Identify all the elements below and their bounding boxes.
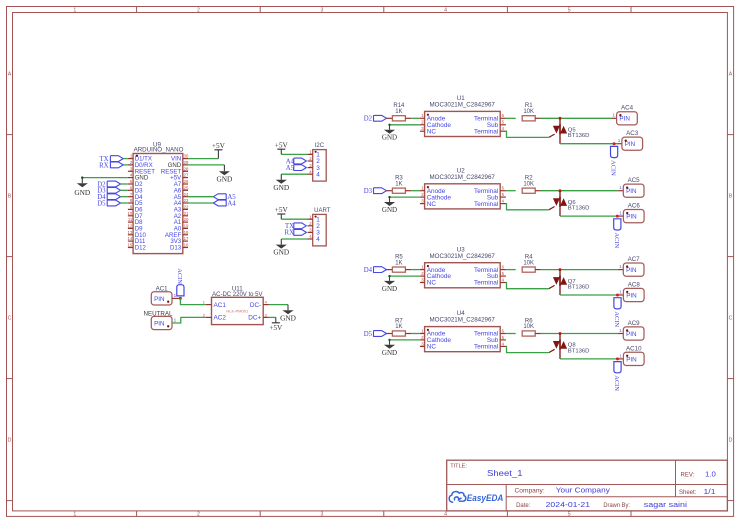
connector AC1 PIN [151, 285, 176, 305]
svg-text:MOC3021M_C2842967: MOC3021M_C2842967 [430, 102, 496, 109]
resistor R1 10K [522, 103, 535, 121]
triac Q6 BT136D [549, 191, 590, 216]
svg-text:D3: D3 [364, 188, 373, 195]
net flag TX at UART pin2 [285, 223, 306, 230]
svg-text:PIN: PIN [625, 141, 636, 148]
wire U1 cathode to GND [390, 124, 420, 126]
svg-text:HLK-PM001: HLK-PM001 [226, 308, 249, 313]
resistor R3 1K [392, 176, 405, 194]
svg-text:C: C [729, 315, 733, 321]
junction cathode GND [388, 124, 390, 126]
svg-text:ACIN: ACIN [176, 268, 183, 284]
svg-text:12: 12 [128, 224, 133, 229]
wire U2 cathode to GND [390, 196, 420, 198]
wire A4 to U9 [188, 202, 213, 204]
svg-text:5: 5 [568, 7, 571, 13]
junction on GND wire [81, 176, 84, 179]
junction ACIN AC8 [616, 294, 619, 297]
wire D5 to U9 [121, 202, 128, 204]
svg-text:D5: D5 [97, 200, 106, 207]
svg-text:ARDUINO_NANO: ARDUINO_NANO [134, 147, 184, 154]
svg-text:GND: GND [74, 188, 90, 197]
svg-text:D13: D13 [170, 245, 182, 252]
svg-text:PIN: PIN [154, 320, 165, 327]
wire D2 to R14 [387, 117, 393, 119]
wire TX to U9 pin1 [123, 158, 128, 160]
wire AC1 pin to ACIN junction [172, 297, 180, 299]
svg-text:GND: GND [273, 183, 289, 192]
svg-text:MOC3021M_C2842967: MOC3021M_C2842967 [430, 253, 496, 260]
svg-text:RX: RX [285, 230, 295, 237]
svg-text:REV:: REV: [681, 472, 695, 478]
svg-text:1.0: 1.0 [705, 469, 716, 478]
svg-text:4: 4 [316, 236, 320, 243]
svg-text:1K: 1K [395, 260, 402, 266]
junction cathode GND [388, 339, 390, 341]
connector I2C header [308, 143, 327, 181]
svg-text:C: C [8, 315, 12, 321]
svg-text:1K: 1K [395, 324, 402, 330]
wire U1 pin6 to R1 [506, 117, 516, 119]
wire ACIN junction to U11 AC1 [180, 298, 205, 304]
svg-text:NC: NC [427, 280, 437, 287]
svg-text:16: 16 [184, 243, 189, 248]
net port ACIN at AC6 [613, 219, 621, 249]
svg-text:BT136D: BT136D [568, 133, 590, 139]
svg-text:10K: 10K [523, 181, 534, 187]
ground symbol at U11 DC- [280, 305, 296, 323]
wire UART pin4 to GND [281, 238, 307, 240]
svg-text:2: 2 [197, 7, 200, 13]
wire R14 to U1 pin1 [405, 117, 420, 119]
svg-text:10: 10 [128, 211, 133, 216]
svg-text:20: 20 [184, 217, 189, 222]
svg-text:TITLE:: TITLE: [450, 464, 467, 470]
svg-text:ACIN: ACIN [613, 375, 620, 391]
svg-text:B: B [729, 193, 733, 199]
net flag D2 at U9 pin 5 [97, 181, 120, 188]
net port ACIN at AC10 [613, 362, 621, 392]
svg-text:Date:: Date: [516, 503, 531, 509]
wire U4 pin4 to Q8 gate [506, 346, 549, 352]
svg-text:18: 18 [184, 230, 189, 235]
svg-text:1: 1 [73, 512, 76, 518]
svg-text:1: 1 [174, 293, 177, 298]
svg-text:GND: GND [382, 349, 397, 357]
title block [447, 460, 728, 511]
svg-text:PIN: PIN [626, 267, 637, 274]
junction ACIN/AC1 [179, 297, 182, 300]
net flag D4 input [364, 267, 387, 274]
svg-text:PIN: PIN [619, 116, 630, 123]
svg-text:15: 15 [128, 243, 133, 248]
wire Q5 MT1 to AC3 [560, 143, 622, 145]
svg-text:GND: GND [382, 285, 397, 293]
svg-text:D: D [8, 437, 12, 443]
net flag A4 at U9 pin 23 [213, 200, 236, 207]
ground symbol at U9 pin29 [216, 165, 232, 183]
triac Q7 BT136D [549, 270, 590, 295]
svg-text:Terminal: Terminal [474, 201, 498, 208]
wire Q8 MT1 to AC10 [560, 358, 623, 360]
wire D4 to U9 [121, 196, 128, 198]
wire D2 to U9 [121, 183, 128, 185]
svg-text:10K: 10K [523, 109, 534, 115]
svg-text:GND: GND [382, 134, 397, 142]
svg-text:1K: 1K [395, 181, 402, 187]
svg-text:Terminal: Terminal [474, 128, 498, 135]
resistor R7 1K [392, 318, 405, 336]
connector NEUTRAL PIN [144, 311, 177, 330]
svg-text:1: 1 [619, 211, 622, 216]
svg-text:I2C: I2C [315, 143, 325, 149]
svg-text:AC8: AC8 [628, 281, 641, 288]
net port ACIN at AC1 [176, 268, 184, 296]
svg-text:PIN: PIN [626, 292, 637, 299]
ground symbol at U3 cathode [382, 276, 397, 293]
ground symbol at U9 pin4 [74, 178, 90, 197]
net port ACIN at AC3 [610, 146, 618, 176]
net flag D2 input [364, 115, 387, 122]
svg-text:22: 22 [184, 205, 189, 210]
ground symbol at U1 cathode [382, 125, 397, 142]
wire U2 pin4 to Q6 gate [506, 204, 549, 210]
svg-text:1: 1 [619, 353, 622, 358]
wire U11 DC- to GND [269, 304, 288, 306]
triac Q8 BT136D [549, 334, 590, 359]
svg-text:14: 14 [128, 236, 133, 241]
resistor R2 10K [522, 176, 535, 194]
svg-text:4: 4 [444, 7, 447, 13]
wire D5 to R7 [387, 333, 393, 335]
mcu U9 ARDUINO_NANO [128, 141, 189, 253]
svg-text:EasyEDA: EasyEDA [467, 493, 504, 503]
svg-text:AC9: AC9 [628, 320, 641, 327]
wire U9 pin29 to GND [188, 164, 224, 166]
net flag A5 at I2C pin3 [286, 165, 307, 172]
svg-text:B: B [8, 193, 12, 199]
svg-text:PIN: PIN [154, 296, 165, 303]
optocoupler U3 MOC3021M [420, 246, 506, 288]
svg-text:PIN: PIN [626, 356, 637, 363]
svg-text:10K: 10K [523, 260, 534, 266]
svg-text:1: 1 [618, 138, 621, 143]
wire U4 cathode to GND [390, 339, 420, 341]
connector AC3 PIN [618, 130, 643, 150]
svg-text:+5V: +5V [275, 205, 289, 214]
svg-text:PIN: PIN [626, 214, 637, 221]
wire Q6 MT1 to AC6 [560, 215, 623, 217]
svg-text:DC+: DC+ [248, 315, 261, 322]
svg-text:sagar saini: sagar saini [644, 500, 688, 509]
svg-text:1: 1 [619, 264, 622, 269]
svg-text:28: 28 [184, 166, 189, 171]
svg-text:BT136D: BT136D [568, 285, 590, 291]
svg-text:ACIN: ACIN [613, 233, 620, 249]
wire U3 cathode to GND [390, 275, 420, 277]
wire R2 to Q6 and AC5 [535, 190, 623, 192]
svg-text:13: 13 [128, 230, 133, 235]
svg-text:BT136D: BT136D [568, 348, 590, 354]
svg-text:GND: GND [273, 248, 289, 257]
connector AC4 PIN [612, 105, 637, 125]
svg-text:MOC3021M_C2842967: MOC3021M_C2842967 [430, 174, 496, 181]
connector AC5 PIN [619, 177, 644, 197]
net flag D3 input [364, 188, 387, 195]
svg-text:2: 2 [197, 512, 200, 518]
svg-text:10K: 10K [523, 324, 534, 330]
svg-text:17: 17 [184, 236, 189, 241]
net flag RX at U9 pin 2 [99, 162, 123, 169]
svg-text:D4: D4 [364, 267, 373, 274]
wire R1 to Q5 and AC4 [535, 117, 616, 119]
svg-text:1: 1 [619, 185, 622, 190]
ground symbol at U4 cathode [382, 340, 397, 357]
wire R6 to Q8 and AC9 [535, 333, 623, 335]
svg-text:A: A [729, 71, 733, 77]
svg-text:D5: D5 [364, 331, 373, 338]
resistor R5 1K [392, 254, 405, 272]
svg-text:AC6: AC6 [628, 203, 641, 210]
svg-text:D: D [729, 437, 733, 443]
wire D3 to U9 [121, 189, 128, 191]
svg-text:Terminal: Terminal [474, 344, 498, 351]
wire A5 to U9 [188, 196, 213, 198]
svg-text:3: 3 [321, 7, 324, 13]
wire U4 pin6 to R6 [506, 333, 516, 335]
svg-text:4: 4 [444, 512, 447, 518]
svg-text:21: 21 [184, 211, 189, 216]
wire GND to U9 pin4 [82, 177, 128, 179]
svg-text:AC7: AC7 [628, 256, 641, 263]
svg-text:A4: A4 [227, 200, 236, 207]
svg-text:D2: D2 [364, 116, 373, 123]
svg-text:1: 1 [612, 113, 615, 118]
svg-text:Company:: Company: [515, 488, 546, 494]
wire +5V to UART pin1 [281, 218, 307, 220]
svg-text:25: 25 [184, 185, 189, 190]
svg-text:PIN: PIN [626, 188, 637, 195]
svg-text:NC: NC [427, 201, 437, 208]
svg-text:+5V: +5V [269, 323, 283, 332]
connector AC9 PIN [619, 320, 644, 340]
svg-text:UART: UART [314, 208, 331, 214]
svg-text:ACIN: ACIN [613, 311, 620, 327]
ground symbol at U2 cathode [382, 197, 397, 214]
junction cathode GND [388, 196, 390, 198]
wire I2C pin4 to GND [281, 173, 307, 175]
net flag RX at UART pin3 [285, 230, 307, 237]
triac Q5 BT136D [549, 118, 590, 143]
svg-text:26: 26 [184, 179, 189, 184]
connector AC7 PIN [619, 256, 644, 276]
net flag D5 input [364, 331, 387, 338]
svg-text:30: 30 [184, 154, 189, 159]
resistor R6 10K [522, 318, 535, 336]
net flag D4 at U9 pin 7 [97, 194, 120, 201]
net flag D5 at U9 pin 8 [97, 200, 120, 207]
svg-text:Drawn By:: Drawn By: [603, 503, 630, 509]
wire U11 DC+ to +5V [269, 316, 276, 318]
svg-text:AC3: AC3 [626, 130, 639, 137]
net port ACIN at AC8 [613, 298, 621, 328]
svg-text:Sheet_1: Sheet_1 [487, 469, 523, 478]
junction at Q6 MT2 [559, 189, 562, 192]
svg-text:+5V: +5V [275, 140, 289, 149]
svg-text:RX: RX [99, 162, 109, 169]
connector AC10 PIN [619, 345, 644, 365]
svg-text:AC10: AC10 [626, 345, 642, 352]
wire R7 to U4 pin1 [405, 333, 420, 335]
svg-text:27: 27 [184, 173, 189, 178]
svg-text:1: 1 [174, 317, 177, 322]
svg-text:19: 19 [184, 224, 189, 229]
power flag +5V at UART [275, 205, 289, 219]
wire U2 pin6 to R2 [506, 190, 516, 192]
junction at Q5 MT2 [559, 117, 562, 120]
power module U11 AC-DC 220V to 5V [203, 286, 269, 325]
svg-text:BT136D: BT136D [568, 206, 590, 212]
wire RX to U9 pin2 [123, 164, 128, 166]
wire D4 to R5 [387, 269, 393, 271]
wire R3 to U2 pin1 [405, 190, 420, 192]
ground symbol at I2C [273, 174, 289, 192]
power flag +5V at I2C [275, 140, 289, 154]
junction ACIN AC3 [613, 142, 616, 145]
resistor R4 10K [522, 254, 535, 272]
resistor R14 1K [392, 103, 405, 121]
wire U3 pin6 to R4 [506, 269, 516, 271]
svg-text:DC-: DC- [250, 302, 261, 309]
svg-text:11: 11 [128, 217, 133, 222]
junction ACIN AC6 [616, 215, 619, 218]
svg-text:MOC3021M_C2842967: MOC3021M_C2842967 [430, 317, 496, 324]
net flag A5 at U9 pin 24 [213, 194, 236, 201]
junction at Q7 MT2 [559, 268, 562, 271]
svg-text:1/1: 1/1 [704, 489, 716, 496]
svg-text:1: 1 [73, 7, 76, 13]
wire D3 to R3 [387, 190, 393, 192]
wire R4 to Q7 and AC7 [535, 269, 623, 271]
net flag TX at U9 pin 1 [100, 156, 124, 163]
net flag D3 at U9 pin 6 [97, 187, 120, 194]
optocoupler U2 MOC3021M [420, 167, 506, 209]
svg-text:GND: GND [280, 313, 296, 322]
wire U9 VIN to +5V [188, 158, 218, 160]
svg-text:2024-01-21: 2024-01-21 [546, 500, 591, 509]
svg-text:NC: NC [427, 344, 437, 351]
svg-text:ACIN: ACIN [610, 160, 617, 176]
ground symbol at UART [273, 239, 289, 257]
svg-text:AC5: AC5 [628, 177, 641, 184]
svg-text:AC2: AC2 [214, 315, 227, 322]
svg-text:AC1: AC1 [214, 302, 227, 309]
svg-text:1K: 1K [395, 109, 402, 115]
junction ACIN AC10 [616, 357, 619, 360]
junction cathode GND [388, 275, 390, 277]
svg-text:+5V: +5V [212, 141, 226, 150]
wire U3 pin4 to Q7 gate [506, 283, 549, 289]
power flag +5V at U9 VIN [212, 141, 226, 159]
svg-text:1: 1 [619, 328, 622, 333]
svg-text:AC4: AC4 [621, 105, 634, 112]
junction at Q8 MT2 [559, 332, 562, 335]
svg-text:4: 4 [316, 171, 320, 178]
svg-text:1: 1 [619, 289, 622, 294]
wire +5V to I2C pin1 [281, 153, 307, 155]
wire R5 to U3 pin1 [405, 269, 420, 271]
svg-text:5: 5 [568, 512, 571, 518]
svg-text:3: 3 [321, 512, 324, 518]
net flag A4 at I2C pin2 [286, 158, 307, 165]
optocoupler U4 MOC3021M [420, 310, 506, 352]
connector UART header [308, 208, 331, 246]
wire NEUTRAL to U11 AC2 [172, 317, 206, 323]
svg-text:GND: GND [382, 206, 397, 214]
svg-text:GND: GND [216, 174, 232, 183]
svg-text:PIN: PIN [626, 331, 637, 338]
power flag +5V at U11 DC+ [269, 317, 283, 332]
svg-text:Your Company: Your Company [556, 485, 610, 494]
svg-text:Terminal: Terminal [474, 280, 498, 287]
svg-text:D12: D12 [135, 245, 147, 252]
optocoupler U1 MOC3021M [420, 95, 506, 137]
svg-text:AC-DC 220V to 5V: AC-DC 220V to 5V [212, 292, 262, 298]
connector AC6 PIN [619, 203, 644, 223]
svg-text:A: A [8, 71, 12, 77]
connector AC8 PIN [619, 281, 644, 301]
svg-text:Sheet:: Sheet: [679, 490, 697, 496]
wire U1 pin4 to Q5 gate [506, 131, 549, 137]
svg-text:NC: NC [427, 128, 437, 135]
wire Q7 MT1 to AC8 [560, 294, 623, 296]
